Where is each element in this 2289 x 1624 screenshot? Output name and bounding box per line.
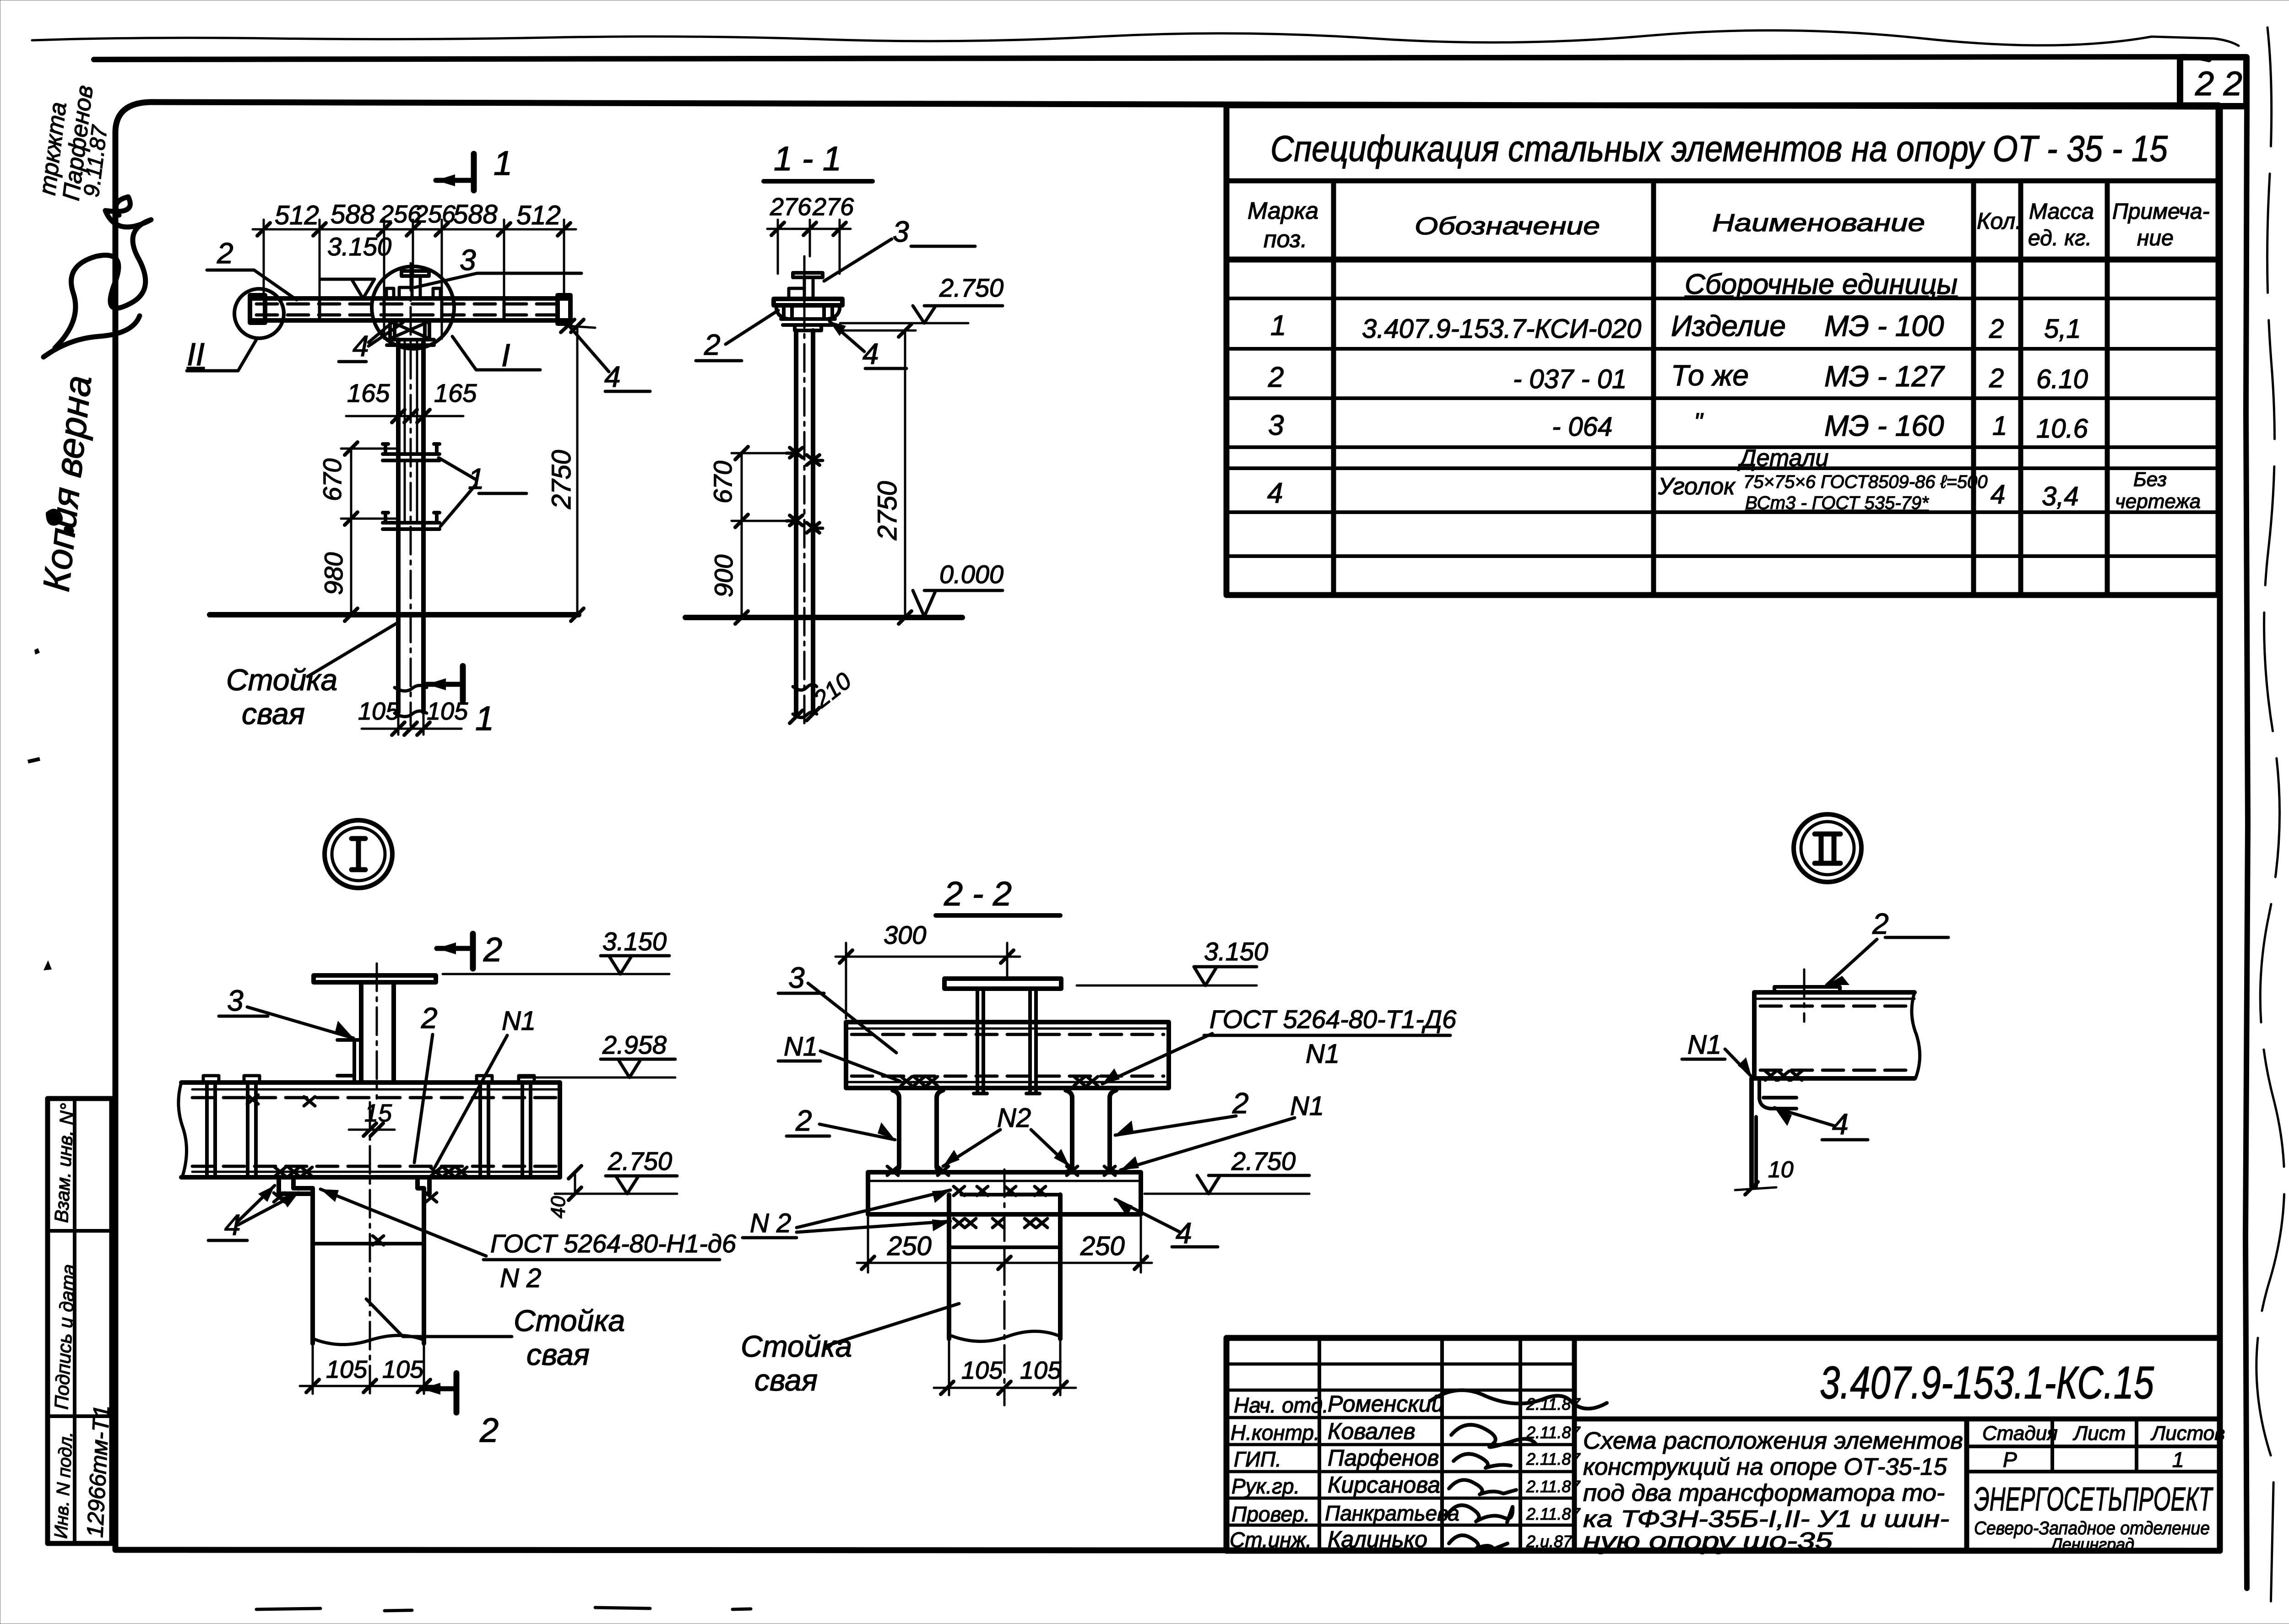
weld x row 2: [954, 1218, 1047, 1228]
svg-text:Без: Без: [2133, 468, 2167, 491]
outer sheet top line: [94, 57, 2209, 60]
dim 2750 right: [568, 326, 595, 615]
svg-text:1: 1: [475, 699, 494, 737]
svg-text:2: 2: [1989, 314, 2004, 344]
base plate: [868, 1172, 1141, 1214]
svg-text:I: I: [501, 337, 510, 373]
outer sheet right vertical: [2246, 106, 2248, 1588]
weld x marks on plates: [274, 1193, 437, 1245]
dim 2750: [838, 330, 916, 617]
svg-text:Кирсанова: Кирсанова: [1328, 1472, 1440, 1498]
svg-text:165: 165: [347, 379, 390, 407]
svg-text:ед. кг.: ед. кг.: [2028, 226, 2092, 250]
stem web: [361, 982, 394, 1082]
svg-text:1: 1: [494, 144, 512, 182]
svg-text:4: 4: [604, 360, 621, 393]
beam bottom: [1760, 1069, 1911, 1072]
svg-text:2: 2: [1989, 363, 2004, 393]
left channel leg: [893, 1090, 899, 1172]
svg-text:Панкратьева: Панкратьева: [1325, 1501, 1459, 1525]
clamp x-marks lower: [790, 515, 819, 533]
svg-text:3.407.9-153.7-КСИ-020: 3.407.9-153.7-КСИ-020: [1362, 314, 1641, 344]
svg-text:свая: свая: [526, 1337, 590, 1371]
dim extension lines: [264, 220, 564, 339]
svg-text:- 037 - 01: - 037 - 01: [1513, 364, 1627, 394]
angle on stem: [337, 1040, 361, 1081]
svg-text:300: 300: [884, 920, 926, 949]
page number box: [2180, 57, 2246, 106]
svg-text:3,4: 3,4: [2042, 482, 2079, 511]
column line 2: [1651, 181, 1656, 595]
signature table row lines: [1226, 1363, 1574, 1366]
svg-text:конструкций на опоре ОТ-35-15: конструкций на опоре ОТ-35-15: [1583, 1454, 1947, 1480]
svg-text:- 064: - 064: [1552, 412, 1612, 442]
column line 3: [1971, 181, 1976, 595]
svg-text:Ковалев: Ковалев: [1328, 1418, 1416, 1444]
svg-text:под два трансформатора то-: под два трансформатора то-: [1583, 1480, 1945, 1506]
dim 165 165: [346, 415, 463, 417]
svg-text:Калинько: Калинько: [1328, 1527, 1427, 1552]
dim 900: [741, 521, 743, 617]
spec table title strip bottom: [1226, 179, 2218, 184]
elevation 3.150 mark: [320, 279, 374, 298]
svg-text:1: 1: [1992, 411, 2007, 441]
svg-text:Нач. отд.: Нач. отд.: [1234, 1393, 1329, 1417]
svg-text:75×75×6 ГОСТ8509-86 ℓ=500: 75×75×6 ГОСТ8509-86 ℓ=500: [1743, 472, 1988, 492]
column line 1: [1331, 181, 1336, 595]
svg-text:ГОСТ 5264-80-Т1-Д6: ГОСТ 5264-80-Т1-Д6: [1210, 1005, 1457, 1034]
svg-text:4: 4: [1176, 1217, 1192, 1250]
stamp table middle vertical: [73, 1099, 76, 1543]
svg-text:": ": [1694, 408, 1704, 436]
svg-text:Сборочные единицы: Сборочные единицы: [1685, 269, 1958, 300]
svg-text:N 2: N 2: [500, 1263, 541, 1293]
svg-text:Схема расположения элементов: Схема расположения элементов: [1583, 1428, 1963, 1454]
stage table lines: [1967, 1445, 2220, 1448]
beam bottom flange: [192, 1165, 556, 1168]
detail circle II: [234, 289, 284, 338]
clamp 2: [383, 513, 439, 529]
header bottom line: [1226, 257, 2218, 263]
svg-text:Лист: Лист: [2072, 1422, 2126, 1445]
dim 276 276: [767, 220, 851, 274]
beam right torn edge: [1912, 992, 1920, 1078]
pole centerline: [1003, 1169, 1006, 1405]
svg-text:210: 210: [808, 667, 857, 713]
beam top flange: [181, 1080, 560, 1085]
svg-text:Парфенов: Парфенов: [1328, 1445, 1439, 1471]
beam right end cap: [558, 295, 570, 324]
svg-text:3: 3: [227, 984, 244, 1017]
svg-text:250: 250: [887, 1231, 932, 1261]
svg-text:свая: свая: [242, 697, 305, 731]
svg-text:165: 165: [434, 379, 477, 407]
svg-text:0.000: 0.000: [939, 560, 1003, 589]
svg-text:5,1: 5,1: [2044, 314, 2081, 344]
svg-text:4: 4: [862, 337, 879, 370]
svg-text:2.и.87: 2.и.87: [1526, 1532, 1573, 1551]
svg-text:3: 3: [788, 961, 805, 994]
stiffener pair right: [480, 1083, 531, 1177]
svg-text:105: 105: [1020, 1357, 1062, 1384]
dim 40: [574, 1172, 576, 1194]
svg-text:256: 256: [414, 200, 456, 228]
pole extension lines: [949, 1339, 1060, 1395]
svg-text:2.11.87: 2.11.87: [1526, 1505, 1581, 1523]
svg-text:ГИП.: ГИП.: [1234, 1447, 1281, 1471]
weld x marks: [1765, 1071, 1802, 1080]
svg-text:3.150: 3.150: [602, 927, 667, 956]
svg-text:670: 670: [318, 459, 347, 501]
svg-text:N1: N1: [1687, 1030, 1721, 1060]
svg-text:2 - 2: 2 - 2: [944, 875, 1012, 913]
svg-text:Детали: Детали: [1737, 445, 1828, 471]
svg-text:чертежа: чертежа: [2115, 490, 2201, 513]
dim 670: [732, 453, 790, 521]
pole extension to dim: [313, 1343, 424, 1394]
svg-text:980: 980: [319, 552, 348, 595]
svg-text:МЭ - 100: МЭ - 100: [1824, 309, 1944, 342]
svg-text:4: 4: [1991, 480, 2005, 509]
description cell divider: [1964, 1419, 1969, 1551]
svg-text:2: 2: [217, 237, 233, 270]
angle bracket: [1749, 1078, 1754, 1186]
pole detail I: [313, 1188, 424, 1343]
weld x row on plate: [954, 1186, 1046, 1196]
svg-text:1: 1: [1270, 310, 1286, 341]
assembly body: [776, 305, 840, 319]
svg-text:ЭНЕРГОСЕТЬПРОЕКТ: ЭНЕРГОСЕТЬПРОЕКТ: [1974, 1481, 2213, 1518]
svg-text:Инв. N подл.: Инв. N подл.: [51, 1431, 76, 1539]
beam body: [250, 298, 570, 320]
svg-text:2.750: 2.750: [1231, 1147, 1296, 1175]
signature table verticals: [1318, 1338, 1321, 1551]
svg-text:Масса: Масса: [2029, 200, 2094, 224]
beam left end cap: [250, 295, 265, 323]
svg-text:3.407.9-153.1-КС.15: 3.407.9-153.1-КС.15: [1820, 1357, 2154, 1408]
svg-text:4: 4: [353, 330, 369, 363]
svg-text:105: 105: [382, 1356, 424, 1383]
svg-text:2: 2: [1872, 907, 1889, 940]
svg-text:3: 3: [1268, 410, 1284, 441]
svg-text:Стойка: Стойка: [741, 1329, 852, 1363]
pole break wave 1-1: [793, 684, 817, 690]
svg-text:2750: 2750: [873, 481, 902, 541]
svg-text:105: 105: [961, 1357, 1003, 1384]
svg-text:900: 900: [709, 555, 738, 597]
svg-text:1: 1: [2172, 1448, 2184, 1472]
pole below plate: [949, 1195, 1060, 1339]
dim 105 105 detail I: [300, 1385, 439, 1387]
dim 980 left: [350, 519, 353, 615]
svg-text:Стойка: Стойка: [514, 1304, 625, 1337]
title block outer box: [1226, 1338, 2220, 1551]
ground line 1-1: [685, 615, 962, 620]
stamp table divider 2: [48, 1414, 112, 1418]
bracket stubs above beam: [386, 288, 440, 298]
svg-text:То же: То же: [1671, 359, 1749, 392]
pole: [398, 340, 423, 712]
svg-text:Ст.инж.: Ст.инж.: [1230, 1528, 1312, 1552]
bottom edge marks: [256, 1608, 751, 1611]
svg-text:3.150: 3.150: [327, 232, 391, 261]
svg-text:2: 2: [795, 1104, 812, 1137]
svg-text:Спецификация стальных элемен: Спецификация стальных элементов на опору…: [1270, 128, 2168, 169]
svg-text:Кол.: Кол.: [1977, 208, 2022, 234]
weld x at stem base: [247, 1095, 315, 1106]
svg-text:Листов: Листов: [2150, 1422, 2225, 1445]
small top plate: [1774, 987, 1840, 992]
spec table outer box: [1226, 105, 2218, 595]
detail II marker circle: [1794, 814, 1861, 882]
pole centerline: [410, 263, 412, 725]
insulator cap: [401, 271, 429, 276]
section marker 1 bottom: [460, 666, 466, 701]
bottom-left stamp table: [48, 1099, 112, 1543]
stamp table divider 1: [48, 1229, 112, 1233]
svg-text:40: 40: [547, 1196, 570, 1218]
torn paper top edge: [32, 30, 2239, 46]
svg-text:4: 4: [1267, 477, 1283, 509]
beam hidden dash lines: [256, 303, 568, 306]
svg-text:15: 15: [364, 1099, 392, 1127]
right bent plate: [418, 1177, 429, 1194]
insulator top: [793, 273, 823, 277]
svg-text:3: 3: [460, 244, 476, 276]
weld x cluster left on beam bottom: [901, 1077, 938, 1086]
dimension line top: [253, 228, 576, 231]
svg-text:поз.: поз.: [1264, 226, 1307, 253]
svg-text:2: 2: [483, 931, 502, 969]
svg-text:2.11.87: 2.11.87: [1526, 1477, 1581, 1496]
svg-text:N1: N1: [1306, 1039, 1340, 1069]
section marker 2 bottom: [454, 1373, 460, 1413]
svg-text:276: 276: [770, 193, 812, 221]
svg-text:Копия верна: Копия верна: [35, 374, 99, 594]
svg-text:Н.контр.: Н.контр.: [1231, 1421, 1320, 1445]
svg-text:2.750: 2.750: [939, 273, 1003, 302]
signature squiggles: [1431, 1390, 1607, 1408]
detail I marker circle: [325, 820, 392, 888]
centerline: [1803, 969, 1806, 1022]
svg-text:276: 276: [812, 193, 854, 221]
ground line: [210, 612, 579, 617]
svg-text:свая: свая: [754, 1363, 818, 1397]
svg-text:4: 4: [1832, 1108, 1849, 1141]
beam left torn edge: [179, 1083, 187, 1177]
svg-text:Рук.гр.: Рук.гр.: [1231, 1474, 1300, 1498]
svg-text:588: 588: [453, 200, 498, 229]
svg-text:ние: ние: [2137, 226, 2174, 250]
svg-text:2.11.87: 2.11.87: [1526, 1450, 1581, 1468]
svg-text:Провер.: Провер.: [1231, 1502, 1310, 1526]
svg-text:2: 2: [1268, 362, 1284, 393]
svg-text:N 2: N 2: [750, 1208, 791, 1238]
svg-text:6.10: 6.10: [2036, 364, 2088, 394]
dim 670 left: [341, 449, 398, 519]
pole 1-1: [796, 330, 813, 712]
assembly cap plate: [774, 299, 842, 305]
svg-text:Роменский: Роменский: [1328, 1391, 1444, 1417]
cap plate: [314, 975, 436, 982]
svg-text:ВСт3 - ГОСТ 535-79*: ВСт3 - ГОСТ 535-79*: [1745, 493, 1929, 513]
beam box: [846, 1022, 1169, 1088]
left bent plate: [279, 1177, 313, 1194]
svg-text:2.11.87: 2.11.87: [1526, 1423, 1581, 1442]
svg-text:2.750: 2.750: [608, 1147, 672, 1175]
svg-text:588: 588: [331, 200, 375, 229]
svg-text:II: II: [187, 336, 205, 372]
label I with leader: [452, 336, 540, 370]
torn paper right edge (wavy): [2256, 27, 2284, 1611]
beam left edge: [1752, 992, 1757, 1078]
dim 210: [790, 708, 819, 723]
beam joint verticals: [320, 298, 504, 320]
svg-text:2750: 2750: [547, 450, 576, 509]
detail circle I: [372, 266, 454, 349]
ink blobs: [46, 509, 63, 525]
pole break wave 2-2: [951, 1331, 1058, 1341]
svg-text:2: 2: [479, 1411, 499, 1449]
svg-text:250: 250: [1080, 1231, 1125, 1261]
svg-text:2: 2: [704, 328, 721, 361]
svg-text:МЭ - 127: МЭ - 127: [1824, 360, 1945, 393]
beam top: [1754, 990, 1915, 995]
dim 300: [835, 943, 1020, 1018]
svg-text:2 2: 2 2: [2195, 65, 2242, 103]
svg-text:Стадия: Стадия: [1982, 1422, 2058, 1445]
svg-text:105: 105: [326, 1356, 368, 1383]
svg-text:МЭ - 160: МЭ - 160: [1824, 409, 1944, 442]
row lines: [1226, 297, 2218, 300]
svg-text:ГОСТ 5264-80-Н1-д6: ГОСТ 5264-80-Н1-д6: [490, 1229, 737, 1258]
doc number separator: [1574, 1417, 2220, 1422]
svg-text:3.150: 3.150: [1204, 937, 1268, 966]
svg-text:3: 3: [893, 215, 909, 248]
svg-text:512: 512: [275, 200, 319, 230]
stem through beam: [974, 989, 1040, 1093]
svg-text:2: 2: [421, 1001, 438, 1034]
clamp x-marks upper: [790, 448, 819, 465]
cap plate 2-2: [944, 979, 1061, 989]
pole break wave: [315, 1335, 422, 1344]
svg-text:512: 512: [516, 200, 561, 230]
svg-text:1 - 1: 1 - 1: [774, 140, 841, 178]
svg-text:N1: N1: [502, 1006, 536, 1036]
svg-text:Ленинград: Ленинград: [2050, 1535, 2134, 1554]
weld x at leg feet: [887, 1166, 1115, 1175]
svg-text:N1: N1: [784, 1032, 818, 1061]
pole break wave: [395, 685, 427, 691]
section marker 2 top: [470, 934, 476, 969]
big signature scribble: [55, 197, 151, 348]
svg-text:Изделие: Изделие: [1671, 309, 1786, 342]
svg-text:Р: Р: [2003, 1448, 2017, 1472]
svg-text:Обозначение: Обозначение: [1415, 212, 1600, 240]
svg-text:Наименование: Наименование: [1712, 209, 1925, 237]
column line 4: [2018, 181, 2023, 595]
svg-text:10.6: 10.6: [2036, 414, 2088, 444]
svg-text:2.958: 2.958: [602, 1030, 667, 1059]
dim 105 105 bottom: [362, 712, 461, 735]
svg-text:Уголок: Уголок: [1658, 473, 1736, 500]
stiffener pair left: [207, 1083, 256, 1177]
bracket X brace: [390, 321, 429, 339]
column line 5: [2105, 181, 2110, 595]
dim ticks: [257, 223, 570, 236]
svg-text:ную опору шо-35: ную опору шо-35: [1583, 1528, 1833, 1554]
dim 105 105 2-2: [934, 1387, 1076, 1389]
pole transition below beam: [387, 320, 434, 345]
section marker 1 top: [471, 154, 477, 190]
weld x row right: [430, 1167, 467, 1176]
svg-text:N2: N2: [997, 1103, 1031, 1133]
assembly bottom plates: [781, 319, 835, 330]
weld x row left: [275, 1167, 312, 1176]
clamp 1: [383, 444, 439, 460]
svg-text:Примеча-: Примеча-: [2112, 200, 2210, 224]
svg-text:670: 670: [708, 461, 737, 503]
svg-text:10: 10: [1768, 1157, 1794, 1182]
beam right edge: [558, 1083, 562, 1177]
insulator stem: [399, 276, 420, 298]
dim 250 250: [857, 1216, 1152, 1272]
svg-text:Марка: Марка: [1248, 198, 1318, 224]
weld x cluster right on beam bottom: [1074, 1077, 1098, 1086]
svg-text:105: 105: [358, 698, 400, 725]
svg-text:2.11.87: 2.11.87: [1526, 1395, 1581, 1413]
right channel leg: [1066, 1090, 1072, 1172]
